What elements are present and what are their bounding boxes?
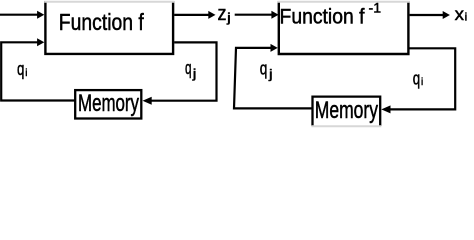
- svg-text:Function f: Function f: [280, 4, 365, 28]
- wire: feedback q_j from memory M2 into F-inverse (left rail): [234, 48, 313, 109]
- svg-text:i: i: [465, 12, 468, 24]
- function block F: box: [45, 1, 173, 54]
- svg-text:j: j: [226, 10, 231, 25]
- wire: z_j into inverse block: [235, 14, 273, 16]
- wire: feedback q_i from memory into F (left rail): [1, 42, 75, 100]
- function block F-inverse: grey top border: [278, 1, 410, 3]
- memory M1: box: [75, 90, 141, 118]
- svg-text:q: q: [260, 57, 268, 78]
- wire: F output q_j down to memory M1: [152, 42, 217, 100]
- svg-text:j: j: [192, 66, 197, 81]
- svg-text:Function f: Function f: [59, 9, 144, 35]
- memory M2: box (grey bottom border): [313, 97, 381, 126]
- wire: x_i output arrow from F-inverse: [410, 14, 444, 16]
- svg-text:Memory: Memory: [78, 90, 139, 117]
- svg-text:q: q: [185, 57, 192, 78]
- svg-text:q: q: [413, 67, 420, 88]
- function block F-inverse: box: [279, 1, 409, 54]
- wire: input x into F: [0, 14, 38, 16]
- svg-text:i: i: [421, 76, 423, 88]
- wire: z_j output arrow from F: [174, 14, 209, 16]
- svg-text:z: z: [218, 3, 227, 25]
- svg-text:i: i: [25, 67, 27, 79]
- svg-text:x: x: [455, 4, 465, 24]
- svg-text:q: q: [17, 58, 24, 79]
- svg-text:-1: -1: [369, 0, 382, 16]
- function block F: grey top border: [44, 1, 174, 3]
- svg-text:j: j: [268, 66, 273, 81]
- svg-text:Memory: Memory: [315, 98, 378, 124]
- wire: F-inverse output q_i down to memory M2: [390, 48, 455, 109]
